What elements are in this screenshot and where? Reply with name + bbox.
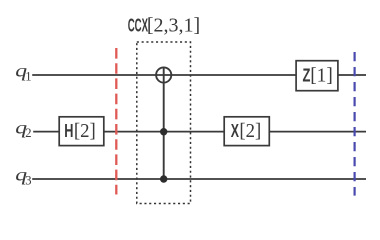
CCX target (XOR circle) on q1 bbox=[156, 67, 171, 82]
svg-text:3: 3 bbox=[25, 174, 31, 188]
svg-text:[2,3,1]: [2,3,1] bbox=[147, 14, 200, 36]
dotted group box for CCX bbox=[137, 42, 191, 204]
wire: CCX vertical connector bbox=[163, 67, 165, 179]
svg-text:2: 2 bbox=[25, 126, 31, 140]
wire q1 bbox=[32, 74, 366, 76]
svg-text:CCX: CCX bbox=[128, 16, 148, 36]
gate X[2] box bbox=[224, 117, 269, 146]
red dashed barrier line bbox=[115, 48, 117, 195]
svg-text:[2]: [2] bbox=[74, 120, 96, 142]
svg-text:[1]: [1] bbox=[310, 64, 333, 86]
wire q3 bbox=[32, 178, 366, 180]
blue dashed barrier line bbox=[354, 52, 356, 196]
svg-text:H: H bbox=[64, 122, 73, 142]
svg-text:[2]: [2] bbox=[239, 120, 261, 142]
svg-text:X: X bbox=[231, 122, 240, 142]
gate Z[1] box bbox=[296, 61, 338, 91]
gate H[2] box bbox=[59, 117, 104, 146]
CCX control dot on q3 bbox=[160, 175, 167, 182]
wire q2 bbox=[33, 131, 366, 133]
CCX control dot on q2 bbox=[160, 128, 167, 135]
svg-text:1: 1 bbox=[25, 70, 31, 84]
